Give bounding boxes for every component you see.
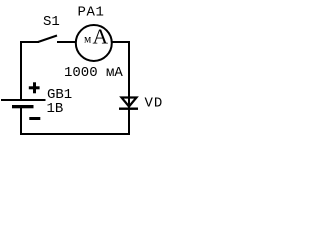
wire: [57, 41, 75, 43]
wire: [113, 41, 131, 43]
diode VD: [119, 94, 138, 110]
battery GB1 plus plate: [1, 99, 46, 101]
wire: [20, 133, 130, 135]
battery plus sign: [29, 82, 40, 93]
wire: [20, 41, 22, 100]
svg-text:м: м: [84, 34, 92, 46]
battery GB1 minus plate: [12, 105, 34, 108]
wire: [20, 107, 22, 135]
svg-text:1000 мА: 1000 мА: [64, 65, 123, 81]
svg-text:А: А: [93, 25, 109, 49]
battery minus sign: [29, 117, 40, 120]
svg-text:S1: S1: [43, 14, 60, 30]
svg-text:1В: 1В: [47, 101, 64, 117]
switch S1: [38, 36, 57, 43]
ammeter PA1: [76, 25, 112, 61]
wire: [128, 41, 130, 134]
svg-text:VD: VD: [145, 95, 164, 111]
wire: [20, 41, 39, 43]
svg-text:PA1: PA1: [78, 5, 105, 21]
